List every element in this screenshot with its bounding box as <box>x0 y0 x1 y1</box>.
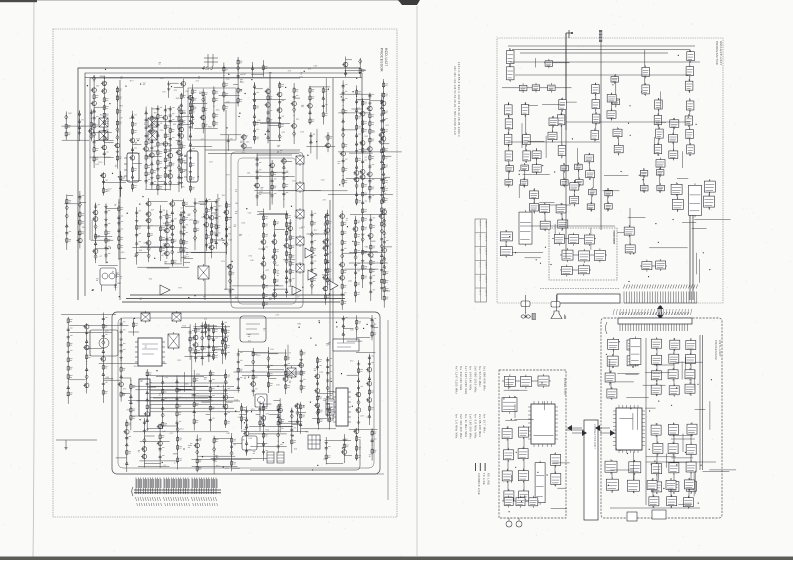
wire W180 <box>132 385 208 387</box>
resistor R13 <box>116 120 118 127</box>
wire W116 <box>147 267 170 269</box>
block U89 <box>651 425 661 435</box>
wire cntl mid2 <box>646 461 716 463</box>
wire W444 <box>317 405 319 430</box>
resistor R255 <box>166 220 168 227</box>
connector J1 pin 33 <box>211 478 212 495</box>
diode D131 <box>355 325 358 332</box>
label T200 <box>192 395 194 397</box>
wire W122 <box>205 198 207 251</box>
wire W318 <box>542 204 571 206</box>
label T212 <box>246 424 248 426</box>
capacitor C17 <box>169 119 172 124</box>
wire W435 <box>372 327 378 329</box>
capacitor C176 <box>194 355 197 361</box>
svg-text:PANEL-UNIT: PANEL-UNIT <box>563 378 566 396</box>
wire W323 <box>656 121 666 123</box>
transistor Q49 <box>284 243 289 248</box>
wire W26 <box>100 75 105 77</box>
capacitor C126 <box>326 407 329 413</box>
connector J1 pin 8 <box>153 478 154 495</box>
wire W30 <box>90 156 111 158</box>
ground G3 <box>169 143 172 147</box>
block U124 <box>570 183 579 191</box>
capacitor C11 <box>145 179 148 185</box>
wire W1 <box>222 385 224 407</box>
connector J2 pin 7 <box>639 285 640 304</box>
line type legend TX LINE <box>479 463 481 471</box>
block U142 <box>647 481 657 490</box>
resistor R196 <box>267 381 269 388</box>
block U51 <box>657 185 665 191</box>
block U93 <box>668 444 678 454</box>
resistor R103 <box>160 235 162 242</box>
wire ru long2 <box>515 74 688 76</box>
block U74 <box>670 340 680 349</box>
connector J1 pin label 28 <box>199 497 201 506</box>
resistor R129 <box>311 220 313 227</box>
wire W81 <box>309 86 330 88</box>
cntl inner bus <box>700 335 703 470</box>
resistor R150 <box>383 269 385 276</box>
panel mcu pin l7 <box>528 430 558 432</box>
brace left <box>606 322 608 334</box>
wire W212 <box>327 357 329 422</box>
resistor R25 <box>157 159 159 166</box>
bus bar lower <box>557 294 620 303</box>
resistor R65 <box>309 94 311 101</box>
label T154 <box>135 142 137 144</box>
ground G19 <box>119 356 122 360</box>
wire W229 <box>243 430 308 432</box>
block U27 <box>654 145 662 154</box>
ground G27 <box>278 403 281 407</box>
wire W468 <box>195 323 197 362</box>
connector J1 pin label 7 <box>150 497 152 506</box>
svg-text:fo+ 4x MHz MHz: fo+ 4x MHz MHz <box>464 414 468 438</box>
panel mcu pin t4 <box>546 401 548 447</box>
resistor R27 <box>157 184 159 191</box>
xbox column U8 <box>296 210 304 218</box>
diode D3 <box>93 131 96 138</box>
connector J3 label 16 <box>660 309 661 315</box>
block U12 <box>523 151 531 161</box>
resistor R128 <box>286 250 288 257</box>
block U61 <box>561 267 572 275</box>
label T217 <box>140 380 143 382</box>
fan hatch box <box>532 314 536 320</box>
line type legend COMMON LINE <box>475 463 477 471</box>
transistor Q57 <box>353 227 358 232</box>
wire W36 <box>61 125 91 127</box>
wire W230 <box>126 420 128 473</box>
capacitor C171 <box>380 185 383 191</box>
capacitor C157 <box>180 230 183 236</box>
svg-text:fo+ 144-146 MHz: fo+ 144-146 MHz <box>469 366 473 391</box>
wire W174 <box>209 370 211 431</box>
capacitor C15 <box>169 107 172 112</box>
wire W75 <box>283 157 285 208</box>
transistor Q43 <box>261 240 266 245</box>
mid container box <box>231 152 303 308</box>
wire W452 <box>362 98 364 288</box>
wire W398 <box>611 93 613 121</box>
wire W378 <box>504 389 520 391</box>
diode D45 <box>171 210 174 216</box>
cntl below block2 <box>652 510 666 519</box>
block U87 <box>606 479 618 490</box>
resistor R282 <box>362 264 364 271</box>
block U11 <box>505 151 512 161</box>
transistor Q30 <box>381 101 386 106</box>
block U108 <box>518 449 528 459</box>
capacitor C127 <box>357 385 360 391</box>
node N43 <box>381 144 382 145</box>
connector J3 label 2 <box>616 309 617 315</box>
mcu U20 pin l1 <box>613 410 645 412</box>
connector J2 pin 5 <box>634 285 635 304</box>
label T163 <box>178 157 181 159</box>
resistor R182 <box>225 373 227 380</box>
wire W272 <box>182 79 184 97</box>
diode D50 <box>193 235 196 242</box>
svg-text:fo+ 10.7 MHz: fo+ 10.7 MHz <box>483 414 487 434</box>
transistor Q48 <box>272 293 277 298</box>
capacitor C95 <box>120 321 123 327</box>
wire W309 <box>699 259 701 283</box>
resistor R206 <box>368 388 370 395</box>
resistor R145 <box>355 290 357 297</box>
capacitor C115 <box>237 377 240 383</box>
wire vertical bus B1 <box>269 72 271 210</box>
wire W181 <box>133 431 228 433</box>
wire W344 <box>690 338 692 396</box>
connector J2 pin 14 <box>657 285 658 304</box>
resistor R290 <box>195 327 197 334</box>
panel mcu pin l6 <box>528 426 558 428</box>
capacitor C59 <box>147 225 150 231</box>
wire W265 <box>327 132 329 152</box>
wire W146 <box>384 290 390 292</box>
resistor R274 <box>362 127 364 134</box>
block U65 <box>672 199 683 209</box>
capacitor C119 <box>300 378 303 384</box>
wire W58 <box>237 57 239 107</box>
ground G30 <box>289 221 292 225</box>
connector J2 pin 19 <box>670 285 671 304</box>
connector J1 pin label 27 <box>196 497 198 506</box>
wire W441 <box>222 321 224 339</box>
capacitor C16 <box>169 113 172 118</box>
resistor R175 <box>176 410 178 417</box>
transistor Q13 <box>201 115 206 120</box>
ground G18 <box>119 337 122 341</box>
resistor R122 <box>274 247 276 254</box>
resistor R220 <box>196 457 198 464</box>
block U63 <box>689 185 702 215</box>
coil L2 hatched <box>277 452 284 463</box>
resistor R92 <box>383 186 385 193</box>
resistor R151 <box>383 278 385 285</box>
transistor Q33 <box>93 217 98 222</box>
block U25 <box>654 116 662 125</box>
block U10 <box>523 135 531 145</box>
transistor Q112 <box>360 175 365 180</box>
resistor R251 <box>326 267 328 274</box>
capacitor C113 <box>237 352 240 358</box>
wire W453 <box>351 108 362 110</box>
block U26 <box>656 129 664 138</box>
op-amp A5 <box>308 270 317 280</box>
label T195 <box>297 295 300 297</box>
block U6 <box>505 105 512 115</box>
mcu U20 pin l2 <box>613 414 645 416</box>
diode D31 <box>342 126 345 132</box>
wire W154 <box>87 348 105 350</box>
connector J3 pin 18 <box>666 312 667 331</box>
resistor R201 <box>300 369 302 376</box>
resistor R233 <box>79 219 81 226</box>
resistor R228 <box>371 429 373 436</box>
resistor R22 <box>157 113 159 120</box>
cntl inner bus2 <box>645 338 647 505</box>
wire W93 <box>338 112 369 114</box>
resistor R153 <box>383 295 385 302</box>
xbox E2 <box>141 313 150 321</box>
svg-text:fo+ 430-440 MHz: fo+ 430-440 MHz <box>459 366 463 391</box>
diode D51 <box>215 240 218 246</box>
connector J1 pin label 22 <box>185 497 187 506</box>
ground G32 <box>361 259 364 263</box>
ground G29 <box>167 87 170 91</box>
wire W25 <box>103 76 105 166</box>
resistor R287 <box>381 220 383 227</box>
block U137 <box>642 262 652 270</box>
capacitor C47 <box>382 117 385 122</box>
capacitor C66 <box>205 199 208 205</box>
transistor Q94 <box>326 143 331 148</box>
capacitor C142 <box>227 138 230 144</box>
resistor R49 <box>223 104 225 111</box>
transistor Q4 <box>102 89 107 94</box>
connector J1 pin label 6 <box>147 497 149 506</box>
resistor R112 <box>205 207 207 214</box>
block U134 <box>607 111 616 119</box>
resistor R132 <box>324 258 326 265</box>
capacitor C80 <box>341 292 344 298</box>
wire W409 <box>133 180 142 182</box>
center top scan smudge <box>398 0 420 5</box>
resistor R270 <box>329 407 331 414</box>
fan stem <box>525 295 527 313</box>
wire W295 <box>524 163 526 188</box>
transistor Q16 <box>277 92 282 97</box>
capacitor C167 <box>380 112 383 117</box>
node N27 <box>147 378 148 379</box>
ground G15 <box>215 208 218 212</box>
label T192 <box>235 212 238 214</box>
connector J1 pin label 2 <box>138 497 140 506</box>
wire W176 <box>206 414 211 416</box>
transistor Q106 <box>165 243 170 248</box>
node N25 <box>130 380 131 381</box>
capacitor C21 <box>253 128 256 134</box>
wire W386 <box>551 508 567 510</box>
block U119 <box>558 220 568 228</box>
wire W9 <box>211 458 271 460</box>
wire W96 <box>96 248 109 250</box>
node N26 <box>130 390 131 391</box>
connector J1 pin label 3 <box>140 497 142 506</box>
wire W361 <box>654 364 674 366</box>
label T166 <box>277 151 279 153</box>
block U46 <box>561 180 569 186</box>
wire W222 <box>256 413 260 415</box>
wire W340 <box>613 338 615 368</box>
resistor R31 <box>180 108 182 115</box>
panel mcu pin t1 <box>533 401 535 447</box>
block U13 <box>559 100 567 110</box>
wire W349 <box>690 423 692 494</box>
connector J1 pin 6 <box>148 478 149 495</box>
mcu U20 pin t4 <box>629 405 631 453</box>
diode D99 <box>357 378 360 384</box>
block U140 <box>530 204 539 212</box>
wire W105 <box>137 251 149 253</box>
transistor Q17 <box>277 108 282 113</box>
connector J1 pin 3 <box>141 478 142 495</box>
wire W260 <box>227 135 229 151</box>
wire W32 <box>93 131 112 133</box>
wire W440 <box>206 336 223 338</box>
resistor R50 <box>237 59 239 66</box>
block U19 <box>591 131 599 140</box>
transistor Q34 <box>93 249 98 254</box>
block U23 <box>642 85 650 94</box>
resistor R52 <box>237 97 239 104</box>
capacitor C155 <box>165 236 168 242</box>
wire W55 <box>194 128 217 130</box>
resistor R200 <box>300 350 302 357</box>
svg-text:28.5: 28.5 <box>479 290 481 296</box>
connector J1 pin 11 <box>160 478 161 495</box>
wire W426 <box>181 257 186 259</box>
label T214 <box>289 381 291 383</box>
resistor R148 <box>370 259 372 266</box>
diode D104 <box>125 442 128 448</box>
wire W275 <box>345 57 347 78</box>
resistor R18 <box>145 139 147 146</box>
wire W233 <box>144 435 154 437</box>
resistor R163 <box>102 389 104 396</box>
resistor R264 <box>356 319 358 326</box>
wire W427 <box>165 263 183 265</box>
resistor R240 <box>131 121 133 128</box>
IC U4 tall <box>139 379 150 416</box>
resistor R272 <box>362 100 364 107</box>
resistor R207 <box>368 405 370 412</box>
diode D87 <box>176 379 179 385</box>
wire W7 <box>338 151 402 153</box>
cntl below block1 <box>627 512 637 521</box>
wire W162 <box>61 314 116 316</box>
resistor R89 <box>383 154 385 161</box>
diode D116 <box>78 201 81 208</box>
connector J2 bus <box>624 302 697 304</box>
wire W90 <box>384 176 390 178</box>
capacitor C33 <box>282 176 285 182</box>
IC U2 shield box <box>187 151 198 182</box>
capacitor C76 <box>310 268 313 274</box>
wire W184 <box>146 374 225 376</box>
diode D137 <box>380 228 383 235</box>
wire W131 <box>275 284 279 286</box>
wire W134 <box>257 213 288 215</box>
panel mcu pin l5 <box>528 422 558 424</box>
capacitor C50 <box>105 223 108 229</box>
ground G12 <box>171 245 174 249</box>
transistor Q90 <box>354 429 359 434</box>
resistor R62 <box>271 184 273 191</box>
capacitor C105 <box>209 378 212 384</box>
resistor R189 <box>212 353 214 360</box>
connector J2 pin 15 <box>660 285 661 304</box>
diode D37 <box>355 191 358 197</box>
label T170 <box>218 198 220 200</box>
svg-text:2SC: 2SC <box>82 227 86 229</box>
connector J3 label 25 <box>687 309 688 315</box>
block U28 <box>687 52 695 61</box>
capacitor C107 <box>209 417 212 423</box>
wire W276 <box>346 59 352 61</box>
IC U5 dip <box>336 388 348 426</box>
connector J3 label 21 <box>675 309 676 315</box>
resistor R178 <box>193 418 195 425</box>
wire W283 <box>525 102 527 163</box>
block U22 <box>642 67 650 76</box>
wire W354 <box>607 381 634 383</box>
resistor R193 <box>252 350 254 357</box>
line type legend RX LINE <box>484 463 486 471</box>
transistor Q115 <box>380 214 385 219</box>
connector J3 label 18 <box>666 309 667 315</box>
resistor R177 <box>193 401 195 408</box>
wire W101 <box>91 239 114 241</box>
wire W306 <box>542 104 565 106</box>
diode D65 <box>354 254 357 261</box>
connector J1 pin 23 <box>188 478 189 495</box>
transistor Q1 <box>92 88 97 93</box>
diode D114 <box>65 213 68 220</box>
node N6 <box>294 121 295 122</box>
capacitor C23 <box>278 100 281 105</box>
resistor R164 <box>120 366 122 373</box>
wire W66 <box>279 81 281 141</box>
block U73 <box>652 339 662 348</box>
resistor R101 <box>148 231 150 238</box>
mcu U20 pin t6 <box>637 405 639 453</box>
block U151 <box>516 498 525 506</box>
diode D108 <box>196 449 199 456</box>
wire W470 <box>222 324 224 364</box>
resistor R82 <box>369 154 371 161</box>
block U36 <box>589 189 597 195</box>
label T164 <box>234 225 237 227</box>
block U3 <box>519 85 527 91</box>
wire W333 <box>613 230 615 244</box>
resistor R243 <box>131 183 133 190</box>
resistor R106 <box>171 258 173 265</box>
